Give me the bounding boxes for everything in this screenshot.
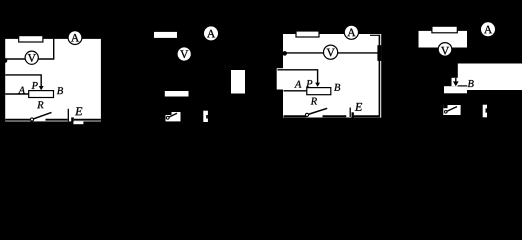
circuit D right white panel xyxy=(458,64,522,91)
ammeter U1 circle (circuit A) xyxy=(68,31,82,45)
battery white patch (circuit B) xyxy=(203,111,208,122)
label A (circuit C) xyxy=(294,81,301,88)
wiper feed wire (circuit C) xyxy=(278,70,318,84)
label E (circuit A) xyxy=(75,107,82,115)
label R (circuit A) xyxy=(37,101,43,108)
bottom wire right segment (circuit C) xyxy=(354,115,380,117)
circuit C panel left bump xyxy=(277,68,284,89)
switch white patch (circuit D) xyxy=(443,105,460,115)
label P (circuit A) xyxy=(32,82,38,89)
bottom wire middle segment (circuit C) xyxy=(323,115,347,117)
resistor box R0 (circuit D) xyxy=(432,26,457,33)
switch patch notch (circuit D) xyxy=(443,105,447,108)
label P (circuit C) xyxy=(306,80,312,87)
potentiometer box (circuit A) xyxy=(29,91,54,98)
ammeter letter A (circuit D) xyxy=(484,26,492,34)
junction node dot (circuit A) xyxy=(3,58,8,63)
switch lever (circuit B) xyxy=(167,113,177,118)
battery short plate (circuit A) xyxy=(71,117,74,124)
wiper arrow white halo (circuit D) xyxy=(452,78,460,86)
battery short plate (circuit C) xyxy=(352,112,354,119)
ammeter disc (circuit D) xyxy=(481,22,495,36)
circuit A white panel xyxy=(5,39,101,122)
wiper arrow P (circuit A) xyxy=(39,86,44,90)
voltmeter U2 circle (circuit A) xyxy=(25,51,38,64)
ammeter disc (circuit B) xyxy=(204,26,218,40)
potentiometer bar (circuit D) xyxy=(444,86,467,93)
switch pivot (circuit D) xyxy=(445,111,448,114)
label B (circuit C) xyxy=(334,84,340,91)
label E (circuit C) xyxy=(355,103,362,111)
top wire right tick (circuit C) xyxy=(370,34,379,36)
voltmeter disc (circuit B) xyxy=(178,47,191,60)
resistor box white fill (circuit B) xyxy=(154,32,177,38)
junction node dot (circuit C) xyxy=(282,51,287,56)
potentiometer bar top outline (circuit D) xyxy=(458,85,468,87)
switch lever (circuit C) xyxy=(308,108,327,114)
right wire (circuit C) xyxy=(378,35,380,117)
label R (circuit C) xyxy=(311,98,317,105)
voltmeter letter V (circuit D) xyxy=(441,47,449,55)
ammeter U1 letter A xyxy=(71,34,79,42)
wire to pot end A (circuit C) xyxy=(284,90,307,92)
voltmeter wire left (circuit C) xyxy=(284,52,324,54)
voltmeter letter V (circuit C) xyxy=(327,49,335,57)
ammeter letter A (circuit C) xyxy=(347,29,355,37)
wiper arrow P (circuit C) xyxy=(315,83,320,87)
switch pivot (circuit B) xyxy=(166,116,169,119)
bottom wire right segment (circuit A) xyxy=(74,119,101,121)
white patch behind box and voltmeter (circuit D) xyxy=(419,31,468,48)
voltmeter U2 letter V xyxy=(28,54,36,62)
resistor box R0 (circuit C) xyxy=(296,31,319,37)
potentiometer box (circuit C) xyxy=(307,88,331,95)
label B (circuit A) xyxy=(57,87,63,94)
battery long plate (circuit C) xyxy=(349,108,351,118)
resistor box R0 (circuit A) xyxy=(19,36,43,42)
switch white patch (circuit B) xyxy=(166,112,181,121)
bottom wire middle segment (circuit A) xyxy=(46,119,68,121)
wire to pot end A (circuit A) xyxy=(5,93,29,95)
voltmeter wire right (circuit C) xyxy=(338,52,378,54)
white rectangle patch (circuit B) xyxy=(231,70,245,94)
ammeter circle (circuit C) xyxy=(344,25,358,39)
battery notch (circuit D) xyxy=(486,108,488,112)
circuit C panel right notch xyxy=(377,45,381,61)
battery notch (circuit B) xyxy=(206,115,208,119)
voltmeter letter V (circuit B) xyxy=(180,50,188,58)
switch lever (circuit D) xyxy=(445,107,457,112)
ammeter letter A (circuit B) xyxy=(207,30,215,38)
switch pivot (circuit C) xyxy=(305,113,308,116)
wiper arrow head (circuit D) xyxy=(453,81,459,86)
label B (circuit D) xyxy=(468,80,474,87)
label A (circuit A) xyxy=(18,87,25,94)
bottom wire left segment (circuit C) xyxy=(284,115,307,117)
switch patch notch (circuit B) xyxy=(166,112,172,115)
switch pivot (circuit A) xyxy=(30,118,33,121)
potentiometer bar white fill (circuit B) xyxy=(165,91,189,97)
circuit C white panel xyxy=(283,34,381,118)
wire voltmeter left (circuit A) xyxy=(5,58,25,60)
battery long plate (circuit A) xyxy=(67,109,69,122)
switch lever (circuit A) xyxy=(33,112,51,119)
battery white patch (circuit D) xyxy=(483,105,487,118)
voltmeter circle (circuit D) xyxy=(438,43,452,57)
bottom wire left segment (circuit A) xyxy=(5,119,32,121)
wiper arrow stem (circuit D) xyxy=(455,78,457,82)
white tab under label E (circuit A) xyxy=(73,121,83,124)
wire wiper feed (circuit A) xyxy=(5,75,41,88)
wire voltmeter right up to top (circuit A) xyxy=(38,38,54,59)
voltmeter circle (circuit C) xyxy=(324,45,338,59)
